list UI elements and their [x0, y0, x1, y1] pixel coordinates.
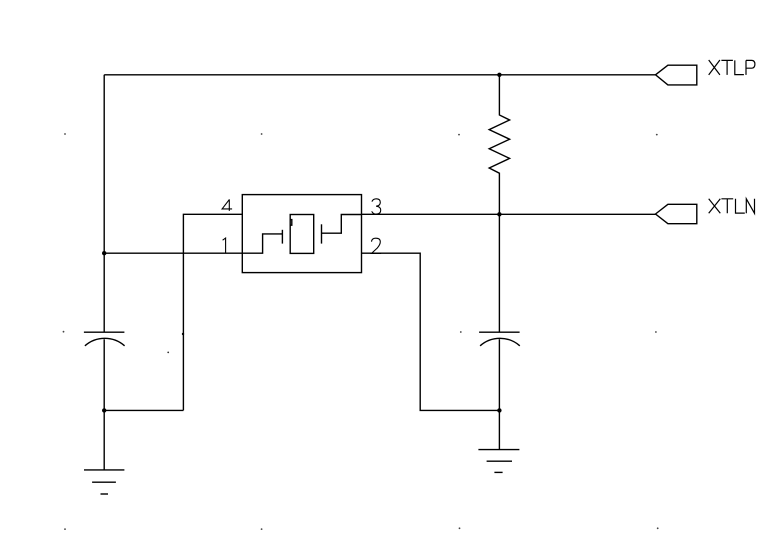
stray blob on pin4 wire — [182, 333, 184, 335]
crystal U1 box — [242, 195, 361, 273]
node junction bottom left — [102, 408, 106, 412]
pin 4 wire — [183, 214, 242, 410]
capacitor C1 top plate — [84, 331, 125, 333]
node junction top resistor — [497, 73, 501, 77]
grid dot r3c3 — [459, 527, 461, 529]
capacitor C2 top plate — [479, 331, 519, 333]
label XTLN — [709, 199, 755, 214]
crystal internal left lead — [242, 234, 282, 253]
pin number 4 — [222, 199, 232, 211]
ground GND2 — [478, 450, 519, 473]
node junction pin1 left — [102, 251, 106, 255]
grid dot r3c2 — [261, 528, 263, 530]
pin number 2 — [372, 238, 382, 253]
ground GND1 — [84, 470, 124, 494]
grid dot r3c1 — [64, 528, 66, 530]
crystal left plate — [281, 230, 283, 244]
stray dot near left cap — [167, 352, 169, 354]
wire C2 lower lead — [498, 339, 500, 449]
connector XTLN — [656, 204, 697, 223]
crystal right plate — [321, 224, 323, 243]
grid dot r2c4 — [655, 331, 657, 333]
wire left vertical upper — [103, 75, 105, 332]
pin 2 wire — [362, 253, 500, 410]
connector XTLP — [656, 65, 697, 85]
resistor — [489, 75, 509, 215]
crystal internal right lead — [322, 215, 362, 234]
crystal body notch — [290, 220, 292, 226]
grid dot r1c1 — [64, 133, 66, 135]
grid dot r1c4 — [656, 134, 658, 136]
grid dot r2c1 — [63, 331, 65, 333]
capacitor C2 curved plate — [480, 338, 520, 346]
node junction bottom right — [497, 408, 501, 412]
wire top horizontal (XTLP net) — [104, 74, 655, 76]
label XTLP — [709, 60, 755, 75]
grid dot r3c4 — [657, 527, 659, 529]
pin number 3 — [372, 199, 381, 214]
crystal body rectangle — [290, 215, 314, 254]
wire C1 lower lead — [103, 339, 105, 470]
grid dot r1c3 — [458, 134, 460, 136]
node junction XTLN resistor — [497, 212, 501, 216]
capacitor C1 curved plate — [85, 338, 125, 346]
pin 1 wire — [104, 252, 242, 254]
wire C2 upper lead — [498, 214, 500, 332]
grid dot r2c3 — [460, 331, 462, 333]
wire bottom-left horizontal — [104, 409, 183, 411]
grid dot r1c2 — [261, 133, 263, 135]
pin number 1 — [223, 238, 226, 253]
wire XTLN horizontal — [362, 213, 656, 215]
